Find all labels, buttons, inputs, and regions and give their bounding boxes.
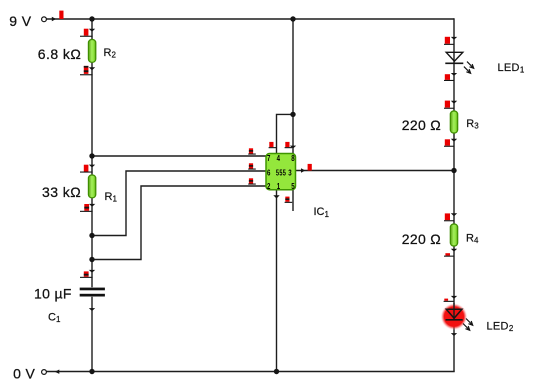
voltage bar below LED1 <box>444 74 454 81</box>
voltage bar above R1 <box>80 165 93 173</box>
wire left rail lower <box>91 297 93 372</box>
voltage bar below R1 (striped) <box>80 204 93 212</box>
svg-text:C1: C1 <box>48 311 61 324</box>
voltage bar below R4 <box>444 253 454 257</box>
terminal 9V <box>42 17 47 22</box>
current arrow below LED1 <box>451 73 457 76</box>
wire left rail upper <box>91 18 93 287</box>
node junction bottom-left <box>89 369 94 374</box>
voltage bar at pin 3 output <box>308 164 312 171</box>
resistor R4 <box>450 224 457 246</box>
voltage bar above R2 <box>80 29 93 37</box>
svg-text:8: 8 <box>291 154 295 163</box>
voltage bar above R4 <box>444 213 454 221</box>
svg-text:3: 3 <box>288 168 292 177</box>
svg-text:4: 4 <box>277 154 281 163</box>
current arrow into pin 8 <box>290 146 296 149</box>
node junction pin6/left rail <box>89 233 94 238</box>
node junction top-left <box>89 16 94 21</box>
svg-text:R2: R2 <box>104 47 117 60</box>
current arrow above R3 <box>451 101 457 104</box>
current arrow below C1 <box>89 308 95 311</box>
terminal 0V <box>42 370 47 375</box>
node junction pin2/left rail <box>89 257 94 262</box>
current arrow at 0V terminal <box>55 370 60 374</box>
capacitor C1 <box>80 288 105 297</box>
node junction pin7/left rail <box>89 153 94 158</box>
voltage bar at pin 8 <box>285 142 293 148</box>
current arrow out of pin 1 <box>273 195 279 198</box>
voltage bar at 9V rail <box>59 11 63 19</box>
node junction pin1/bottom rail <box>274 369 279 374</box>
op-amp U1: 555 timer IC1 body <box>266 154 296 190</box>
wire right rail <box>453 18 455 371</box>
svg-text:6.8 kΩ: 6.8 kΩ <box>38 46 82 62</box>
svg-text:IC1: IC1 <box>314 206 330 219</box>
voltage bar below R2 (striped) <box>80 66 93 75</box>
wire bottom rail <box>47 371 455 373</box>
current arrow below R1 <box>89 204 95 207</box>
voltage bar at pin 5 <box>285 197 293 203</box>
wire pin 1 <box>276 190 278 372</box>
current arrow above LED1 <box>451 37 457 40</box>
svg-text:220 Ω: 220 Ω <box>402 231 441 247</box>
wire top rail <box>47 18 455 20</box>
LED2 glow <box>440 303 467 330</box>
svg-text:LED2: LED2 <box>487 320 514 333</box>
LED2 diode symbol <box>446 309 473 330</box>
resistor R1 <box>88 175 95 198</box>
svg-text:9 V: 9 V <box>9 13 31 29</box>
svg-text:555: 555 <box>276 170 286 178</box>
current arrow above C1 <box>89 270 95 273</box>
voltage bar above LED2 <box>444 299 454 302</box>
wire through LED2 <box>453 303 455 320</box>
current arrow out of pin 3 <box>301 168 305 172</box>
voltage bar above R3 <box>444 101 454 109</box>
voltage bar below R3 <box>444 139 454 147</box>
svg-text:LED1: LED1 <box>498 62 525 75</box>
svg-text:0 V: 0 V <box>13 366 35 382</box>
resistor R3 <box>450 111 457 133</box>
current arrow at 9V terminal <box>52 17 56 21</box>
wire pin 3 output <box>296 170 455 172</box>
current arrow below R3 <box>451 139 457 142</box>
svg-text:1: 1 <box>277 182 281 191</box>
resistor R2 <box>88 40 95 63</box>
svg-text:R3: R3 <box>466 118 479 131</box>
voltage bar above LED1 <box>444 37 454 45</box>
wire pin 7 <box>92 155 266 157</box>
current arrow below LED2 <box>451 333 457 336</box>
svg-text:6: 6 <box>267 168 271 177</box>
svg-text:5: 5 <box>291 182 295 191</box>
voltage bar above C1 (striped) <box>80 271 93 278</box>
current arrow below R4 <box>451 249 457 252</box>
current arrow below R2 <box>89 67 95 70</box>
current arrow above R1 <box>89 165 95 168</box>
svg-text:33 kΩ: 33 kΩ <box>42 184 81 200</box>
svg-text:R1: R1 <box>105 191 118 204</box>
wire pin 8 <box>292 19 294 154</box>
current arrow above LED2 <box>451 296 457 299</box>
wire pin 2 <box>92 186 266 260</box>
node junction pin4/pin8 <box>290 112 295 117</box>
svg-text:2: 2 <box>267 182 271 191</box>
voltage bar at pin 4 <box>269 142 277 148</box>
wire pin 6 <box>92 171 266 236</box>
wire pin 4 <box>277 114 294 153</box>
voltage bar at pin 2 <box>248 178 256 184</box>
current arrow above R2 <box>89 29 95 32</box>
node junction top pin8 <box>290 16 295 21</box>
node junction output/right rail <box>451 168 456 173</box>
LED1 diode symbol <box>445 52 473 73</box>
svg-text:220 Ω: 220 Ω <box>402 117 441 133</box>
svg-text:10 µF: 10 µF <box>34 285 72 301</box>
current arrow above R4 <box>451 213 457 216</box>
svg-text:7: 7 <box>267 154 271 163</box>
svg-text:R4: R4 <box>466 232 479 245</box>
voltage bar at pin 7 <box>248 148 256 154</box>
wire pin 5 <box>292 190 294 211</box>
voltage bar at pin 6 <box>248 163 256 169</box>
